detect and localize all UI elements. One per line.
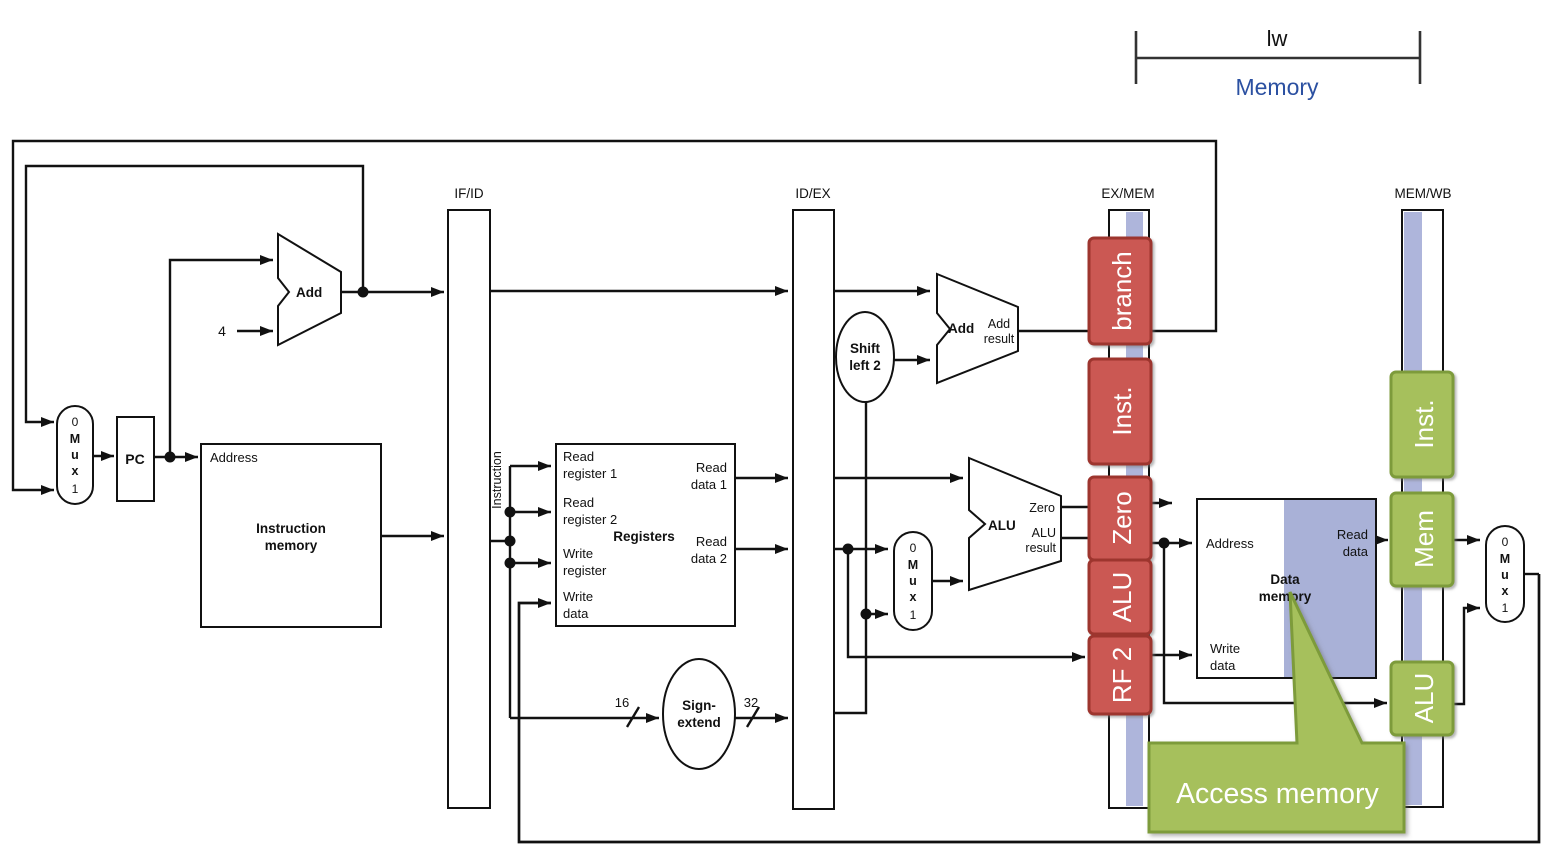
svg-text:0: 0: [910, 541, 917, 555]
svg-text:register 2: register 2: [563, 512, 617, 527]
wire Mem to writeback mux: [1453, 539, 1480, 541]
svg-text:Sign-: Sign-: [682, 698, 716, 713]
svg-text:Add: Add: [948, 321, 974, 336]
svg-text:Read: Read: [563, 495, 594, 510]
highlight box RF 2 (EX/MEM): [1089, 636, 1151, 714]
svg-text:Access memory: Access memory: [1176, 778, 1379, 810]
svg-text:result: result: [1025, 541, 1056, 555]
svg-text:0: 0: [72, 415, 79, 429]
svg-text:M: M: [908, 558, 918, 572]
highlight box Mem (MEM/WB): [1391, 493, 1453, 586]
wire write data to data memory: [1149, 654, 1192, 656]
wire read data 2 down to EX/MEM: [848, 549, 1085, 657]
adder Add (branch target): [937, 274, 1018, 383]
svg-text:1: 1: [1502, 601, 1509, 615]
wire ALU mux out: [932, 580, 963, 582]
node instruction junction 3: [505, 558, 516, 569]
svg-text:u: u: [1501, 568, 1509, 582]
wire read data 1 to ID/EX: [735, 477, 788, 479]
svg-text:Read: Read: [563, 449, 594, 464]
svg-text:Zero: Zero: [1107, 491, 1137, 544]
highlight box Inst. (EX/MEM): [1089, 359, 1151, 464]
node bus width 16: [615, 695, 639, 727]
svg-text:branch: branch: [1107, 251, 1137, 331]
svg-text:16: 16: [615, 695, 629, 710]
svg-text:left 2: left 2: [849, 358, 881, 373]
register EX/MEM: [1101, 186, 1154, 808]
wire ALU to writeback mux: [1453, 608, 1480, 704]
svg-text:Inst.: Inst.: [1107, 386, 1137, 435]
wire ALU zero out: [1061, 506, 1109, 508]
svg-text:ALU: ALU: [988, 518, 1016, 533]
svg-text:Shift: Shift: [850, 341, 880, 356]
svg-text:data: data: [1343, 544, 1369, 559]
wire PC up to Add: [170, 260, 273, 457]
svg-text:Address: Address: [210, 450, 258, 465]
svg-text:4: 4: [218, 323, 226, 339]
highlight box ALU (MEM/WB): [1391, 662, 1453, 735]
svg-text:ALU: ALU: [1107, 572, 1137, 623]
wire read data 2 to ALU mux 0: [834, 548, 888, 550]
highlight box ALU (EX/MEM): [1089, 560, 1151, 634]
svg-text:ALU: ALU: [1409, 673, 1439, 724]
svg-text:Mem: Mem: [1409, 510, 1439, 568]
node ALU result junction: [1159, 538, 1170, 549]
svg-text:data: data: [563, 606, 589, 621]
register IF/ID: [448, 186, 490, 808]
svg-text:RF 2: RF 2: [1107, 647, 1137, 703]
svg-text:extend: extend: [677, 715, 721, 730]
svg-text:data: data: [1210, 658, 1236, 673]
svg-text:Write: Write: [563, 546, 593, 561]
svg-text:register 1: register 1: [563, 466, 617, 481]
mux M3 (writeback): [1486, 526, 1524, 622]
highlight box Inst. (MEM/WB): [1391, 372, 1453, 477]
wire 4 to Add: [237, 330, 273, 332]
node bus width 32: [744, 695, 759, 727]
svg-text:result: result: [984, 332, 1015, 346]
svg-text:Instruction: Instruction: [490, 451, 504, 509]
wire pc+4 through IF/ID to ID/EX: [490, 290, 788, 292]
svg-text:memory: memory: [265, 538, 318, 553]
wire shift left 2 to Add: [894, 359, 930, 361]
node instruction junction 1: [505, 507, 516, 518]
svg-text:Instruction: Instruction: [256, 521, 326, 536]
svg-text:Zero: Zero: [1029, 501, 1055, 515]
adder Add (PC+4): [278, 234, 341, 345]
wire sign extend up to shift left 2: [834, 402, 866, 713]
wire IF/ID instruction out: [490, 540, 510, 542]
wire to read register 1: [510, 465, 551, 467]
svg-text:Data: Data: [1270, 572, 1300, 587]
svg-text:Inst.: Inst.: [1409, 399, 1439, 448]
wire to sign extend: [510, 717, 659, 719]
block Sign-extend: [663, 659, 735, 769]
block Registers: [556, 444, 735, 626]
svg-text:IF/ID: IF/ID: [454, 186, 483, 201]
svg-text:lw: lw: [1267, 26, 1288, 51]
wire writeback to write data: [519, 574, 1539, 842]
mux M2 (ALU src): [894, 532, 932, 630]
wire ALU result to data memory address: [1149, 542, 1192, 544]
node sign extend junction: [861, 609, 872, 620]
svg-text:Write: Write: [563, 589, 593, 604]
svg-text:ALU: ALU: [1032, 526, 1056, 540]
wire to write register: [510, 562, 551, 564]
svg-text:x: x: [72, 464, 79, 478]
svg-text:Address: Address: [1206, 536, 1254, 551]
node read data 2 junction: [843, 544, 854, 555]
svg-text:data 1: data 1: [691, 477, 727, 492]
register ID/EX: [793, 186, 834, 809]
svg-text:EX/MEM: EX/MEM: [1101, 186, 1154, 201]
wire read data to MEM/WB: [1376, 539, 1388, 541]
node PC out junction: [165, 452, 176, 463]
wire zero from EX/MEM: [1149, 502, 1172, 504]
wire mux to PC: [93, 455, 114, 457]
register PC: [117, 417, 154, 501]
wire sign extend to ALU mux 1: [866, 613, 888, 615]
svg-text:data 2: data 2: [691, 551, 727, 566]
svg-text:ID/EX: ID/EX: [795, 186, 830, 201]
svg-text:u: u: [71, 448, 79, 462]
svg-text:1: 1: [72, 482, 79, 496]
svg-text:Read: Read: [696, 460, 727, 475]
wire instruction memory to IF/ID: [381, 535, 444, 537]
wire sign extend to ID/EX: [735, 717, 788, 719]
node pc+4 junction: [358, 287, 369, 298]
register MEM/WB: [1395, 186, 1452, 807]
wire branch loop top: [13, 141, 1216, 490]
svg-text:32: 32: [744, 695, 758, 710]
svg-text:u: u: [909, 574, 917, 588]
svg-text:memory: memory: [1259, 589, 1312, 604]
svg-text:MEM/WB: MEM/WB: [1395, 186, 1452, 201]
wire writeback mux out: [1524, 573, 1539, 575]
wire ALU result out: [1061, 537, 1109, 539]
wire read data 1 to ALU: [834, 477, 963, 479]
wire Add out to IF/ID: [341, 291, 444, 293]
mux M1 (PC select): [57, 406, 93, 504]
wire instruction vertical: [509, 466, 511, 718]
wire pc+4 to branch Add: [834, 290, 930, 292]
svg-text:Add: Add: [296, 285, 322, 300]
svg-text:0: 0: [1502, 535, 1509, 549]
svg-text:register: register: [563, 563, 607, 578]
wire Add result to EX/MEM: [1018, 330, 1109, 332]
wire read data 2 to ID/EX: [735, 548, 788, 550]
svg-text:Registers: Registers: [613, 529, 675, 544]
block Shift left 2: [836, 312, 894, 402]
svg-text:M: M: [70, 432, 80, 446]
op-amp ALU: [969, 458, 1061, 590]
svg-text:x: x: [1502, 584, 1509, 598]
wire PC to instruction memory: [154, 456, 198, 458]
svg-text:Read: Read: [1337, 527, 1368, 542]
wire ALU result bypass to MEM/WB: [1164, 543, 1387, 703]
svg-text:1: 1: [910, 608, 917, 622]
svg-text:Read: Read: [696, 534, 727, 549]
block data memory: [1197, 499, 1376, 678]
svg-text:Add: Add: [988, 317, 1010, 331]
svg-text:Memory: Memory: [1235, 74, 1319, 100]
svg-text:x: x: [910, 590, 917, 604]
wire pc+4 loop: [26, 166, 363, 422]
wire to read register 2: [510, 511, 551, 513]
svg-text:PC: PC: [125, 451, 144, 467]
node lw bracket: [1136, 31, 1420, 84]
callout Access memory: [1149, 592, 1404, 832]
node instruction junction 2: [505, 536, 516, 547]
highlight box Zero (EX/MEM): [1089, 477, 1151, 560]
svg-text:Write: Write: [1210, 641, 1240, 656]
svg-text:M: M: [1500, 552, 1510, 566]
block instruction memory: [201, 444, 381, 627]
highlight box branch (EX/MEM): [1089, 238, 1151, 344]
